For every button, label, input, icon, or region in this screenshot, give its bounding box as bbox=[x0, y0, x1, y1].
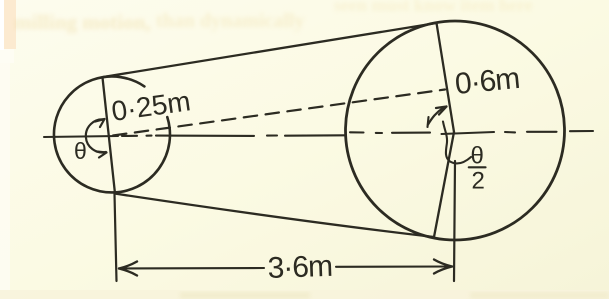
extension line below large pulley bbox=[454, 161, 455, 281]
svg-text:0·6m: 0·6m bbox=[454, 62, 521, 101]
belt top tangent line bbox=[103, 23, 437, 77]
svg-text:θ: θ bbox=[74, 138, 87, 164]
svg-text:than dynamically: than dynamically bbox=[156, 10, 304, 32]
small pulley circle with gap at label bbox=[54, 76, 170, 192]
bottom page shading bbox=[0, 290, 609, 299]
belt bottom tangent line bbox=[115, 194, 435, 238]
dimension line right segment bbox=[336, 265, 452, 267]
theta arc arrow bottom bbox=[97, 152, 107, 158]
large pulley radius to top tangent bbox=[437, 23, 455, 132]
theta arc arrow top bbox=[95, 119, 105, 127]
peach corner block bbox=[3, 0, 16, 49]
ghost print-through text top left bbox=[14, 10, 304, 34]
large pulley circle bbox=[346, 21, 565, 240]
svg-text:milling motion,: milling motion, bbox=[14, 10, 151, 34]
fraction bar of theta/2 bbox=[469, 166, 486, 168]
rotation arrow tail tick bbox=[428, 117, 429, 127]
large pulley radius to bottom tangent bbox=[434, 132, 454, 237]
dashed line centre to centre bbox=[113, 90, 445, 136]
svg-text:3·6m: 3·6m bbox=[267, 250, 332, 285]
dimension arrow left bbox=[119, 262, 137, 276]
rotation arrow at large pulley centre bbox=[428, 108, 443, 125]
theta lap-angle arc bbox=[86, 119, 106, 152]
small pulley tangent chord bbox=[103, 78, 116, 194]
dimension line left segment bbox=[119, 267, 264, 270]
centre chain line bbox=[44, 131, 593, 137]
dimension arrow right bbox=[434, 260, 452, 274]
svg-text:2: 2 bbox=[472, 168, 485, 195]
left page-edge white column bbox=[0, 0, 10, 299]
extension line below small pulley bbox=[115, 194, 117, 281]
ghost print-through text top right bbox=[334, 0, 533, 15]
svg-text:θ: θ bbox=[471, 143, 484, 170]
svg-text:seen must know item here: seen must know item here bbox=[334, 0, 533, 15]
leader curve from theta/2 label bbox=[443, 122, 471, 164]
